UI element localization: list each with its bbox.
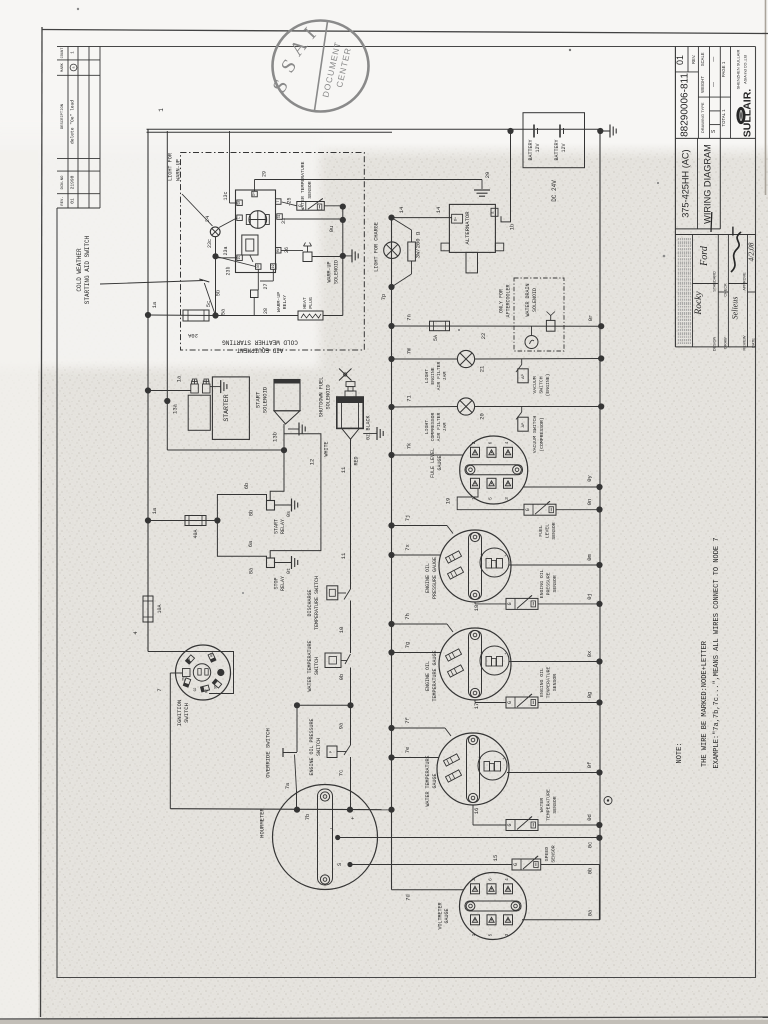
svg-text:FUEL: FUEL (538, 525, 544, 537)
node 0y (586, 475, 603, 491)
svg-text:+: + (351, 815, 354, 822)
node 1a starter (145, 387, 151, 393)
svg-text:WARM-UP: WARM-UP (276, 292, 282, 312)
svg-text:4/2,08: 4/2,08 (747, 242, 756, 261)
svg-text:WATER TEMPERATURE: WATER TEMPERATURE (307, 640, 313, 691)
svg-text:0x: 0x (586, 650, 593, 657)
svg-text:7a: 7a (284, 782, 291, 789)
svg-text:7k: 7k (406, 442, 413, 449)
svg-text:DATE: DATE (751, 338, 755, 348)
node 6 (214, 517, 220, 523)
svg-text:4: 4 (504, 878, 510, 881)
svg-text:1b: 1b (509, 224, 516, 231)
ground 0z (377, 427, 383, 440)
svg-text:1: 1 (471, 933, 477, 936)
node 7 bottom bus (388, 807, 394, 813)
svg-text:T: T (276, 200, 280, 202)
svg-text:WATER TEMPERATURE: WATER TEMPERATURE (425, 755, 431, 806)
terminal L warm-up controller (237, 215, 243, 221)
svg-text:1: 1 (158, 108, 165, 112)
svg-text:20: 20 (479, 413, 486, 420)
ignition switch (156, 645, 231, 726)
svg-text:JAM: JAM (442, 372, 448, 381)
svg-text:LIGHT FOR: LIGHT FOR (168, 153, 174, 181)
wire 13b to start relay (270, 451, 284, 501)
svg-text:0r: 0r (587, 315, 594, 322)
gauge voltmeter (438, 873, 527, 940)
switch override (265, 705, 298, 810)
terminal 31 warm-up controller (277, 214, 283, 220)
svg-text:EXAMPLE:"7a,7b,7c...",MEANS AL: EXAMPLE:"7a,7b,7c...",MEANS ALL WIRES CO… (713, 537, 721, 768)
ground starter (210, 380, 227, 393)
svg-text:50: 50 (237, 201, 241, 205)
svg-text:WATER DRAIN: WATER DRAIN (525, 283, 531, 316)
svg-text:01: 01 (675, 55, 685, 65)
svg-text:7x: 7x (404, 544, 411, 551)
shutdown solenoid funnel (342, 428, 360, 439)
solenoid warm-up (303, 243, 340, 285)
target symbol (604, 797, 612, 805)
wire fuel sensor to 0n (556, 509, 600, 511)
node 0c (587, 835, 603, 849)
svg-text:D+: D+ (455, 217, 459, 221)
svg-text:7m: 7m (406, 347, 413, 354)
svg-text:—: — (711, 57, 717, 62)
wire 15 from node 23a (216, 257, 237, 259)
svg-text:SHUTDOWN FUEL: SHUTDOWN FUEL (319, 377, 325, 417)
svg-text:COLD WEATHER STARTING: COLD WEATHER STARTING (222, 339, 298, 346)
wire 23a (207, 237, 232, 316)
svg-text:0d: 0d (586, 814, 593, 821)
svg-text:G2: G2 (193, 688, 197, 692)
svg-text:RELAY: RELAY (280, 519, 286, 534)
node 9b (347, 702, 353, 708)
wire ignition N to bottom rail (170, 673, 182, 809)
ground 0t stop relay (275, 556, 298, 574)
svg-text:22: 22 (480, 333, 487, 340)
svg-text:ENGINE: ENGINE (430, 367, 436, 384)
resistor 3W/200ohm (392, 218, 422, 287)
starter terminal stack 2 (203, 379, 211, 393)
node sensor out (340, 204, 346, 210)
wire 29 controller to alternator ground (255, 171, 492, 191)
title block grid upper (675, 47, 755, 347)
svg-text:0m: 0m (586, 554, 593, 561)
sensor G water temperature (282, 161, 325, 210)
svg-text:AIR FILTER: AIR FILTER (436, 412, 442, 441)
svg-text:0t: 0t (286, 568, 292, 574)
svg-text:SENSOR: SENSOR (551, 845, 557, 862)
fuse 40A (148, 516, 217, 539)
callout line light for warn-up (182, 194, 213, 226)
battery box (523, 113, 585, 168)
wire 30 19 to warm-up relay (258, 269, 273, 290)
svg-text:13b: 13b (272, 432, 279, 442)
svg-text:SWITCH: SWITCH (316, 738, 322, 756)
revision table (57, 47, 100, 209)
svg-text:VACUUM SWITCH: VACUUM SWITCH (532, 416, 538, 454)
svg-text:HEAT: HEAT (302, 297, 308, 309)
wire 6a (217, 521, 266, 559)
label 1s (151, 507, 158, 514)
svg-text:ΔP: ΔP (521, 374, 526, 379)
terminal 30 warm-up controller (256, 264, 262, 270)
start solenoid funnel (274, 411, 300, 451)
svg-text:GAUGE: GAUGE (437, 455, 443, 470)
svg-text:SWITCH: SWITCH (314, 657, 320, 675)
svg-text:71: 71 (406, 395, 413, 402)
relay stop (248, 558, 287, 591)
wire fuel gauge out 0y (523, 486, 600, 488)
svg-text:18: 18 (473, 605, 480, 612)
node 7p (380, 284, 395, 300)
svg-text:WHITE: WHITE (324, 441, 330, 456)
terminal 15 warm-up controller (237, 255, 243, 261)
label light engine air filter jam (424, 361, 448, 390)
fuse 20A (148, 310, 216, 339)
svg-text:APPROVE: APPROVE (743, 272, 747, 291)
svg-text:27: 27 (263, 283, 269, 289)
gauge fuel level (430, 436, 528, 504)
svg-text:DC 24V: DC 24V (551, 180, 558, 202)
svg-text:VACUUM: VACUUM (532, 376, 538, 393)
ground top right (600, 125, 616, 138)
title block drawing name (675, 138, 720, 229)
svg-text:Rocky: Rocky (694, 291, 704, 316)
svg-text:0s: 0s (286, 511, 292, 517)
label DC 24V (551, 180, 558, 202)
label cold weather starting aid equipment (222, 339, 298, 354)
svg-text:7: 7 (156, 688, 163, 691)
svg-text:11: 11 (340, 466, 347, 473)
svg-text:PLUG: PLUG (308, 297, 314, 309)
svg-text:L: L (237, 217, 241, 219)
starter solenoid sub box (188, 395, 210, 430)
svg-text:6b: 6b (243, 483, 250, 490)
svg-text:0j: 0j (586, 593, 593, 600)
svg-text:G: G (513, 863, 519, 866)
label 1 (158, 108, 165, 112)
svg-text:LIGHT: LIGHT (424, 369, 430, 384)
wire 0z black (363, 415, 377, 440)
svg-text:DRAW: DRAW (723, 337, 727, 349)
svg-text:28: 28 (263, 308, 269, 314)
svg-text:19: 19 (271, 265, 275, 269)
svg-text:DESCRIPTION: DESCRIPTION (61, 104, 65, 129)
svg-text:SWITCH: SWITCH (183, 703, 190, 723)
svg-text:ASIA ind CO.,Ltd: ASIA ind CO.,Ltd (744, 55, 748, 84)
svg-text:SULLAIR.: SULLAIR. (742, 89, 754, 137)
svg-text:START: START (274, 519, 280, 534)
svg-text:9b: 9b (338, 674, 345, 681)
wire 7k to fuel gauge (392, 454, 464, 456)
wire 12 white (270, 434, 329, 558)
svg-text:5a: 5a (220, 308, 227, 315)
node override top (294, 702, 300, 708)
label cold weather starting aid switch (76, 235, 91, 304)
wire 1b alternator B+ (501, 131, 516, 230)
svg-text:VOLTMETER: VOLTMETER (438, 902, 444, 929)
terminal T warm-up controller (276, 199, 282, 205)
svg-text:7h: 7h (404, 613, 411, 620)
svg-text:LEVEL: LEVEL (545, 524, 551, 539)
node 0j sensor (586, 593, 603, 607)
wire 31 to 0u (282, 218, 343, 220)
svg-text:2: 2 (471, 441, 477, 444)
ground start solenoid (288, 423, 305, 436)
title block cell labels (713, 271, 756, 351)
svg-text:7b: 7b (304, 814, 311, 821)
svg-text:3W/200 Ω: 3W/200 Ω (415, 231, 422, 258)
scan specks (77, 8, 666, 594)
svg-text:AIR FILTER: AIR FILTER (436, 361, 442, 390)
svg-text:1a: 1a (176, 375, 183, 382)
svg-text:U: U (480, 652, 484, 654)
label start solenoid (255, 386, 269, 413)
node 7j (388, 515, 411, 529)
svg-text:(COMPRESSOR): (COMPRESSOR) (539, 417, 545, 452)
svg-text:G: G (525, 508, 531, 511)
svg-text:1a: 1a (151, 301, 158, 308)
svg-text:SOLENOID: SOLENOID (532, 288, 538, 312)
svg-text:TEMPERATURE SWITCH: TEMPERATURE SWITCH (314, 576, 320, 630)
svg-text:7e: 7e (404, 747, 411, 754)
svg-text:REV.: REV. (61, 196, 65, 205)
svg-text:COUNT: COUNT (61, 47, 65, 59)
svg-text:LIGHT FOR CHARGE: LIGHT FOR CHARGE (374, 222, 380, 272)
svg-text:SENSOR: SENSOR (307, 181, 313, 198)
lamp light for charge (374, 222, 401, 272)
svg-text:MARK: MARK (61, 62, 65, 71)
svg-text:21990: 21990 (70, 175, 76, 189)
node 0n (586, 499, 603, 513)
svg-text:JAM: JAM (442, 423, 448, 432)
svg-text:LIGHT: LIGHT (424, 420, 430, 435)
svg-text:DESIGN: DESIGN (713, 336, 717, 351)
title block part number and company (675, 50, 754, 138)
label -25 (287, 197, 293, 206)
gauge engine oil temperature (392, 624, 600, 709)
svg-text:IN: IN (182, 677, 186, 681)
svg-text:20A: 20A (187, 332, 198, 339)
svg-text:BLACK: BLACK (366, 415, 372, 430)
node solenoid ground (340, 253, 346, 259)
svg-text:375-425HH (AC): 375-425HH (AC) (681, 149, 691, 217)
svg-text:ENGING OIL: ENGING OIL (539, 569, 545, 598)
lamp 20 compressor air filter (392, 398, 602, 420)
shutdown solenoid fittings (345, 382, 356, 397)
svg-text:STANDARD: STANDARD (713, 271, 717, 292)
svg-text:B: B (491, 211, 495, 213)
svg-text:23b: 23b (226, 266, 232, 275)
wire 6b (217, 483, 266, 521)
note text (676, 537, 721, 768)
fuse 10A (143, 596, 163, 622)
svg-text:0b: 0b (587, 868, 594, 875)
svg-text:0g: 0g (586, 692, 593, 699)
svg-text:29: 29 (262, 171, 268, 177)
svg-text:15: 15 (492, 855, 499, 862)
label light compressor air filter jam (424, 412, 448, 441)
svg-text:TENPERATURE: TENPERATURE (546, 667, 552, 699)
node 13b (272, 432, 288, 453)
wire 13a to 13b (167, 449, 284, 451)
ground warm-up solenoid (343, 249, 358, 262)
svg-text:DRAWING TYPE: DRAWING TYPE (700, 102, 705, 133)
svg-text:0y: 0y (586, 475, 593, 482)
svg-text:5A: 5A (433, 335, 439, 341)
node junction battery+ (507, 128, 513, 134)
label 0s funnel (0, 0, 1, 1)
svg-text:THE WIRE BE MARKED:NODE+LETTER: THE WIRE BE MARKED:NODE+LETTER (701, 640, 709, 767)
svg-text:23a: 23a (223, 246, 229, 255)
sensor fuel level (524, 501, 557, 539)
label 26 (284, 247, 290, 253)
svg-text:OVERRIDE SWITCH: OVERRIDE SWITCH (265, 728, 272, 778)
starter terminal stack 1 (191, 379, 199, 393)
terminal 50 warm-up controller (237, 200, 243, 206)
svg-text:7f: 7f (404, 717, 411, 724)
wire node 1 top rail (147, 129, 601, 651)
switch vacuum compressor (516, 407, 545, 454)
valve symbol shutdown fuel (339, 369, 352, 381)
svg-text:3: 3 (504, 497, 510, 500)
warm-up controller meter symbol (246, 211, 269, 229)
switch discharge temperature (307, 576, 351, 653)
node plus hourmeter (347, 807, 354, 822)
shutdown solenoid body (337, 397, 363, 428)
node 0u (328, 217, 346, 233)
node 5a (205, 301, 227, 319)
alternator (441, 204, 504, 273)
hourmeter (259, 785, 378, 890)
switch 5b cold weather aid (199, 279, 221, 316)
svg-text:U: U (478, 757, 482, 759)
title block signature grid (675, 235, 755, 347)
outer border bottom (0, 1017, 768, 1024)
terminal 19 warm-up controller (271, 264, 277, 270)
ground 0s start relay (275, 499, 298, 518)
label 13c (223, 191, 229, 200)
svg-text:ΔP: ΔP (521, 422, 526, 427)
svg-text:IGNITION: IGNITION (176, 700, 183, 726)
bus node 7 (391, 218, 393, 890)
svg-text:WATER: WATER (539, 798, 545, 813)
node 1a (145, 312, 151, 318)
gauge water temperature (392, 728, 600, 831)
svg-text:BATTERY: BATTERY (528, 139, 534, 160)
wire hourmeter minus (329, 825, 599, 840)
svg-text:NOTE:: NOTE: (676, 742, 684, 763)
wire sensor to node (324, 205, 343, 207)
svg-text:11: 11 (340, 552, 347, 559)
svg-text:G: G (507, 602, 513, 605)
relay start (248, 501, 287, 535)
wire 28 relay to 5a rail (253, 298, 255, 316)
svg-text:G: G (507, 701, 513, 704)
svg-text:-: - (329, 825, 333, 832)
svg-text:TEMPERATURE: TEMPERATURE (546, 789, 552, 821)
svg-text:STOP: STOP (274, 577, 280, 589)
node 7m out (598, 355, 604, 361)
warm-up controller coil (242, 235, 258, 262)
wire 13a (167, 131, 178, 450)
lamp 24 warm-up (204, 215, 220, 237)
svg-text:SENSOR: SENSOR (552, 674, 558, 691)
node 7n (388, 314, 412, 329)
svg-text:DISCHARGE: DISCHARGE (307, 589, 313, 616)
svg-text:0z: 0z (366, 434, 372, 440)
svg-text:PRESSURE: PRESSURE (546, 572, 552, 595)
svg-text:9a: 9a (338, 722, 345, 729)
cold weather equipment dashed box (181, 153, 365, 351)
node 7m (388, 347, 412, 362)
svg-text:STARTING AID SWITCH: STARTING AID SWITCH (84, 235, 91, 304)
svg-text:REV.: REV. (691, 55, 696, 64)
svg-text:RELAY: RELAY (280, 576, 286, 591)
node 23a (212, 253, 218, 259)
node 13a (164, 398, 170, 404)
svg-text:13a: 13a (172, 403, 179, 414)
svg-text:Selieus: Selieus (731, 297, 740, 320)
svg-text:SOLENOID: SOLENOID (334, 260, 340, 284)
node 7g (388, 642, 411, 656)
wire 5a to heat plug (216, 315, 299, 317)
svg-text:WIRING DIAGRAM: WIRING DIAGRAM (703, 144, 713, 224)
wire bus1 to ignition (148, 652, 234, 694)
outer border left (41, 27, 43, 1017)
node 7b (294, 807, 311, 821)
svg-text:01: 01 (70, 198, 76, 204)
node 7f (388, 717, 411, 731)
terminal D+ warm-up controller (252, 191, 257, 197)
svg-text:R2: R2 (205, 689, 209, 693)
outer border top (42, 30, 768, 34)
switch engine oil pressure (309, 705, 351, 810)
title block disclaimer fine print (678, 238, 690, 344)
node 0g sensor (586, 692, 603, 706)
battery B2 12V (554, 125, 567, 161)
svg-text:12V: 12V (561, 143, 567, 152)
svg-text:SENSOR: SENSOR (552, 575, 558, 592)
svg-text:SCALE: SCALE (700, 52, 705, 66)
aftercooler dashed box (499, 278, 565, 351)
node 7l out (598, 403, 604, 409)
svg-text:Ford: Ford (699, 245, 710, 267)
label 27 (263, 283, 269, 289)
node 0d sensor (586, 814, 603, 828)
wire hourmeter S (336, 862, 512, 867)
svg-text:0f: 0f (586, 762, 593, 769)
svg-text:TEMPERATURE GAUGE: TEMPERATURE GAUGE (432, 650, 438, 701)
wire 13c to top rail (230, 131, 237, 203)
svg-text:40A: 40A (193, 529, 199, 538)
svg-text:23c: 23c (207, 239, 213, 248)
node 7e (388, 747, 411, 761)
svg-text:12V: 12V (535, 143, 541, 152)
svg-text:ONLY FOR: ONLY FOR (499, 289, 505, 313)
svg-text:AID EQUIPMENT: AID EQUIPMENT (236, 347, 283, 354)
svg-text:17: 17 (473, 703, 480, 710)
svg-text:DCN.NO: DCN.NO (61, 175, 65, 189)
svg-text:RED: RED (354, 456, 360, 465)
svg-text:GAUGE: GAUGE (432, 773, 438, 788)
svg-text:14: 14 (398, 206, 405, 213)
svg-text:SHENZHEN SULLAIR: SHENZHEN SULLAIR (736, 50, 741, 90)
svg-text:REVIEW: REVIEW (743, 335, 747, 350)
svg-text:7p: 7p (380, 294, 387, 301)
gauge engine oil pressure (392, 526, 600, 612)
